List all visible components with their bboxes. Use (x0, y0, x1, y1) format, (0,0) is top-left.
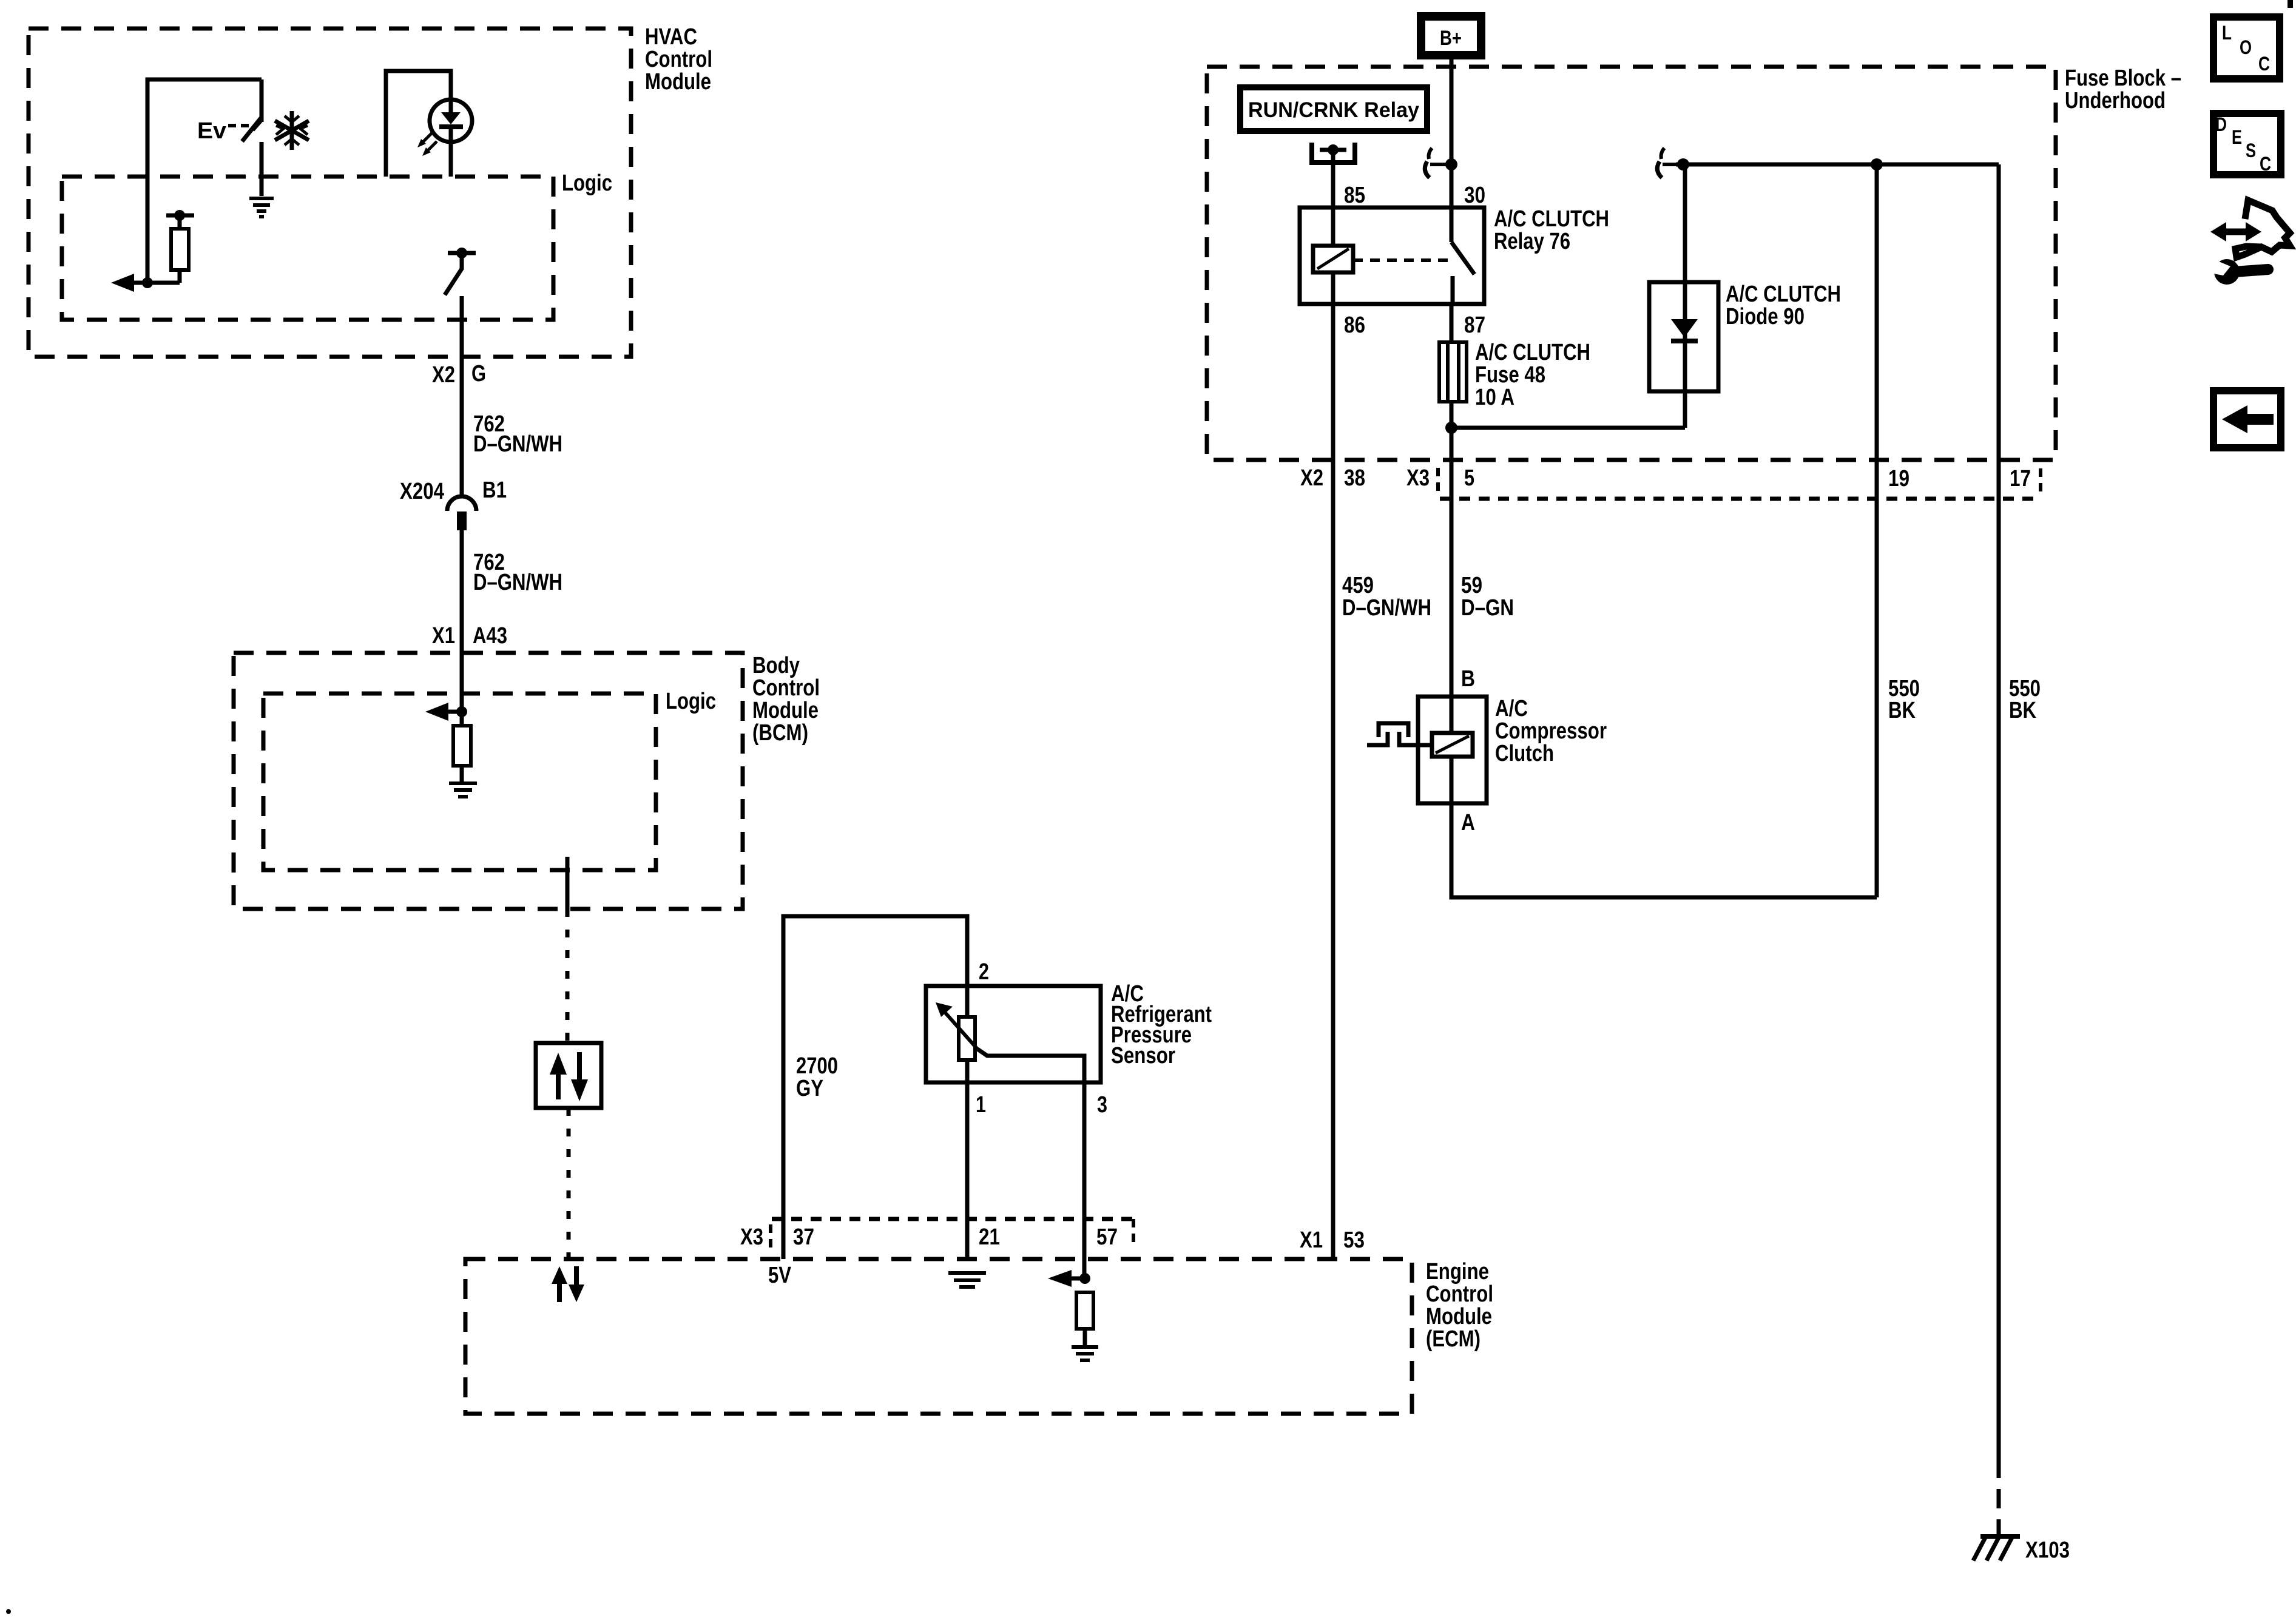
A/C CLUTCH Relay 76 box (1300, 206, 1609, 304)
svg-text:Underhood: Underhood (2065, 88, 2166, 113)
A/C Compressor Clutch box (1418, 696, 1607, 803)
resistor (ECM 57) (1076, 1292, 1093, 1329)
svg-text:BK: BK (1888, 698, 1916, 723)
serial data arrows ECM (552, 1266, 584, 1302)
wire evaporator switch loop (147, 79, 262, 283)
svg-text:D–GN/WH: D–GN/WH (1342, 595, 1431, 621)
wire to output arrow (134, 281, 180, 285)
svg-text:L: L (2222, 22, 2232, 44)
svg-text:S: S (2246, 140, 2256, 161)
svg-text:B+: B+ (1440, 27, 1462, 50)
serial data arrows BCM (550, 1052, 588, 1101)
svg-text:Control: Control (645, 47, 712, 72)
svg-text:O: O (2240, 36, 2252, 58)
svg-text:Control: Control (752, 675, 820, 701)
dashed link Ev switch (228, 124, 251, 127)
wire fuse to junction (1450, 402, 1454, 428)
svg-text:1: 1 (976, 1092, 986, 1118)
icon harness repair (2207, 200, 2290, 285)
svg-text:30: 30 (1464, 183, 1485, 208)
wire B+ to relay 30 (1450, 59, 1454, 208)
in-line connector at 30 (1425, 148, 1457, 178)
wire through sensor (965, 986, 970, 1082)
svg-text:Module: Module (645, 69, 711, 95)
wire 459 relay 86 to ECM (1331, 304, 1335, 1259)
wire fuse block pin 17 (1997, 164, 2001, 1459)
wire switch contact (260, 79, 264, 122)
wire fuse block pin 19 (1875, 164, 1879, 897)
svg-text:Module: Module (752, 698, 819, 723)
ground (evaporator switch) (249, 198, 274, 217)
diode symbol (1671, 319, 1698, 337)
svg-text:87: 87 (1464, 312, 1485, 338)
A/C CLUTCH Diode 90 box (1649, 282, 1841, 391)
wire junction to diode (1451, 391, 1685, 428)
svg-text:X2: X2 (1300, 465, 1323, 491)
resistor (pressure sensor) (959, 1017, 975, 1060)
svg-text:A: A (1461, 810, 1475, 836)
svg-text:Clutch: Clutch (1495, 741, 1554, 766)
svg-text:5V: 5V (768, 1263, 792, 1288)
LED diode (449, 100, 453, 140)
svg-text:X3: X3 (1406, 465, 1430, 491)
relay switch (1450, 208, 1454, 242)
page mark (6, 1609, 11, 1614)
node sensor input bar (166, 214, 194, 218)
svg-text:17: 17 (2010, 466, 2031, 491)
wire 87 to fuse (1450, 304, 1454, 342)
svg-text:D–GN/WH: D–GN/WH (473, 431, 562, 457)
svg-text:Control: Control (1426, 1281, 1493, 1307)
svg-text:Engine: Engine (1426, 1259, 1489, 1284)
bracket RUN/CRNK feed (1312, 143, 1355, 163)
svg-text:D: D (2215, 113, 2227, 135)
wire LED bottom (449, 142, 453, 177)
connector X204 B1 (400, 478, 507, 530)
svg-text:Fuse Block –: Fuse Block – (2065, 66, 2181, 91)
junction dot BCM input (456, 706, 467, 717)
svg-text:X103: X103 (2025, 1538, 2070, 1563)
wire serial data BCM (566, 857, 570, 909)
wire 59 down (1450, 428, 1454, 697)
svg-text:G: G (471, 361, 486, 387)
junction dot (142, 277, 153, 288)
dashed wire to X103 (1997, 1459, 2001, 1536)
svg-text:A43: A43 (473, 623, 507, 649)
svg-text:2700: 2700 (796, 1053, 838, 1079)
icon back arrow (2213, 391, 2281, 448)
switch Ev blade (242, 116, 262, 141)
svg-text:X204: X204 (400, 479, 444, 504)
svg-text:RUN/CRNK Relay: RUN/CRNK Relay (1248, 98, 1420, 122)
svg-text:5: 5 (1464, 465, 1474, 491)
svg-text:21: 21 (979, 1224, 1000, 1250)
svg-text:B1: B1 (482, 478, 507, 503)
fuse block bottom connector row (1440, 497, 2036, 501)
svg-text:A/C: A/C (1495, 696, 1528, 721)
svg-text:59: 59 (1461, 573, 1482, 598)
svg-text:57: 57 (1096, 1224, 1118, 1250)
svg-text:Relay 76: Relay 76 (1494, 229, 1570, 254)
icon DESC (2213, 113, 2281, 175)
B+ symbol (1421, 16, 1481, 55)
svg-text:(ECM): (ECM) (1426, 1326, 1481, 1352)
svg-text:BK: BK (2009, 698, 2036, 723)
wire LED loop (386, 71, 451, 177)
switch (HVAC logic output) (448, 251, 476, 255)
svg-text:D–GN: D–GN (1461, 595, 1514, 621)
svg-text:Body: Body (752, 653, 800, 678)
wire B+ distribution top (1676, 163, 1999, 167)
svg-text:19: 19 (1888, 466, 1909, 491)
ground (ECM 57) (1072, 1347, 1098, 1360)
contact tick (253, 121, 262, 130)
relay coil (1331, 208, 1335, 246)
svg-text:37: 37 (793, 1224, 814, 1250)
junction dot pin 57 (1079, 1273, 1090, 1284)
svg-text:Compressor: Compressor (1495, 718, 1607, 744)
svg-text:(BCM): (BCM) (752, 720, 808, 746)
svg-text:38: 38 (1344, 465, 1365, 491)
wiper wire pin 3 (977, 1049, 1084, 1278)
Fuse Block Underhood box (1207, 66, 2181, 460)
BCM Logic box (263, 689, 716, 870)
fuse A/C CLUTCH 48 (1439, 340, 1590, 410)
svg-text:Module: Module (1426, 1304, 1492, 1329)
wire 762 lower (460, 530, 464, 712)
wire serial data to ECM (567, 1108, 571, 1259)
svg-text:Diode 90: Diode 90 (1726, 304, 1805, 329)
svg-text:Fuse 48: Fuse 48 (1475, 362, 1545, 388)
page mark top right (2288, 0, 2293, 8)
LED light arrows (417, 133, 437, 156)
wire X2-G output (460, 296, 464, 497)
svg-text:3: 3 (1097, 1092, 1107, 1118)
svg-text:B: B (1461, 666, 1475, 692)
svg-text:Logic: Logic (666, 689, 716, 714)
svg-text:X1: X1 (1300, 1227, 1323, 1253)
svg-text:A/C CLUTCH: A/C CLUTCH (1494, 206, 1609, 232)
snowflake icon (275, 111, 309, 150)
wire 5V sensor feed loop (783, 916, 967, 1259)
svg-text:C: C (2258, 53, 2270, 75)
svg-text:Sensor: Sensor (1111, 1043, 1175, 1068)
wire to ground (260, 142, 264, 196)
LED circle (430, 100, 472, 142)
RUN/CRNK Relay box (1240, 87, 1427, 131)
svg-text:10 A: 10 A (1475, 385, 1514, 410)
icon LOC (2213, 17, 2280, 79)
svg-text:X2: X2 (432, 362, 455, 388)
clutch coil (1450, 697, 1454, 733)
svg-text:Logic: Logic (562, 170, 612, 196)
svg-text:X1: X1 (432, 623, 455, 649)
serial data box (536, 1043, 601, 1108)
wire clutch A to ground path (1451, 757, 1877, 897)
svg-text:E: E (2232, 126, 2242, 148)
svg-text:C: C (2260, 153, 2271, 175)
ground (BCM) (449, 783, 477, 797)
A/C Refrigerant Pressure Sensor box (926, 981, 1212, 1082)
svg-text:Ev: Ev (197, 118, 226, 144)
svg-text:HVAC: HVAC (645, 24, 697, 50)
relay linkage dashes (1353, 258, 1450, 262)
variable arrow (pressure sensor) (944, 1011, 977, 1049)
in-line connector at diode feed (1657, 148, 1689, 178)
wire through diode (1683, 164, 1687, 391)
clutch plates symbol (1367, 732, 1388, 745)
chassis ground X103 (1973, 1536, 2070, 1563)
svg-text:D–GN/WH: D–GN/WH (473, 570, 562, 595)
ground (ECM pin 21) (948, 1273, 986, 1287)
arrow (ECM 57) (1070, 1277, 1085, 1281)
HVAC Logic box (62, 170, 612, 320)
HVAC Control Module box (29, 24, 712, 357)
wire pin 1 to ECM 21 (965, 1082, 970, 1259)
arrow BCM input (447, 710, 462, 714)
resistor (HVAC logic) (178, 215, 182, 229)
svg-text:459: 459 (1342, 573, 1374, 598)
Engine Control Module box (465, 1259, 1493, 1414)
wire coil feed 85 (1331, 150, 1335, 208)
svg-text:GY: GY (796, 1076, 823, 1101)
svg-text:A/C CLUTCH: A/C CLUTCH (1475, 340, 1590, 365)
ECM connector row (772, 1217, 1133, 1221)
svg-text:85: 85 (1344, 183, 1365, 208)
svg-text:53: 53 (1343, 1227, 1365, 1253)
svg-text:2: 2 (979, 959, 989, 985)
svg-text:86: 86 (1344, 312, 1365, 338)
resistor (BCM) (460, 712, 464, 726)
svg-text:X3: X3 (740, 1224, 763, 1250)
Body Control Module box (234, 653, 820, 909)
svg-text:A/C CLUTCH: A/C CLUTCH (1726, 282, 1841, 307)
